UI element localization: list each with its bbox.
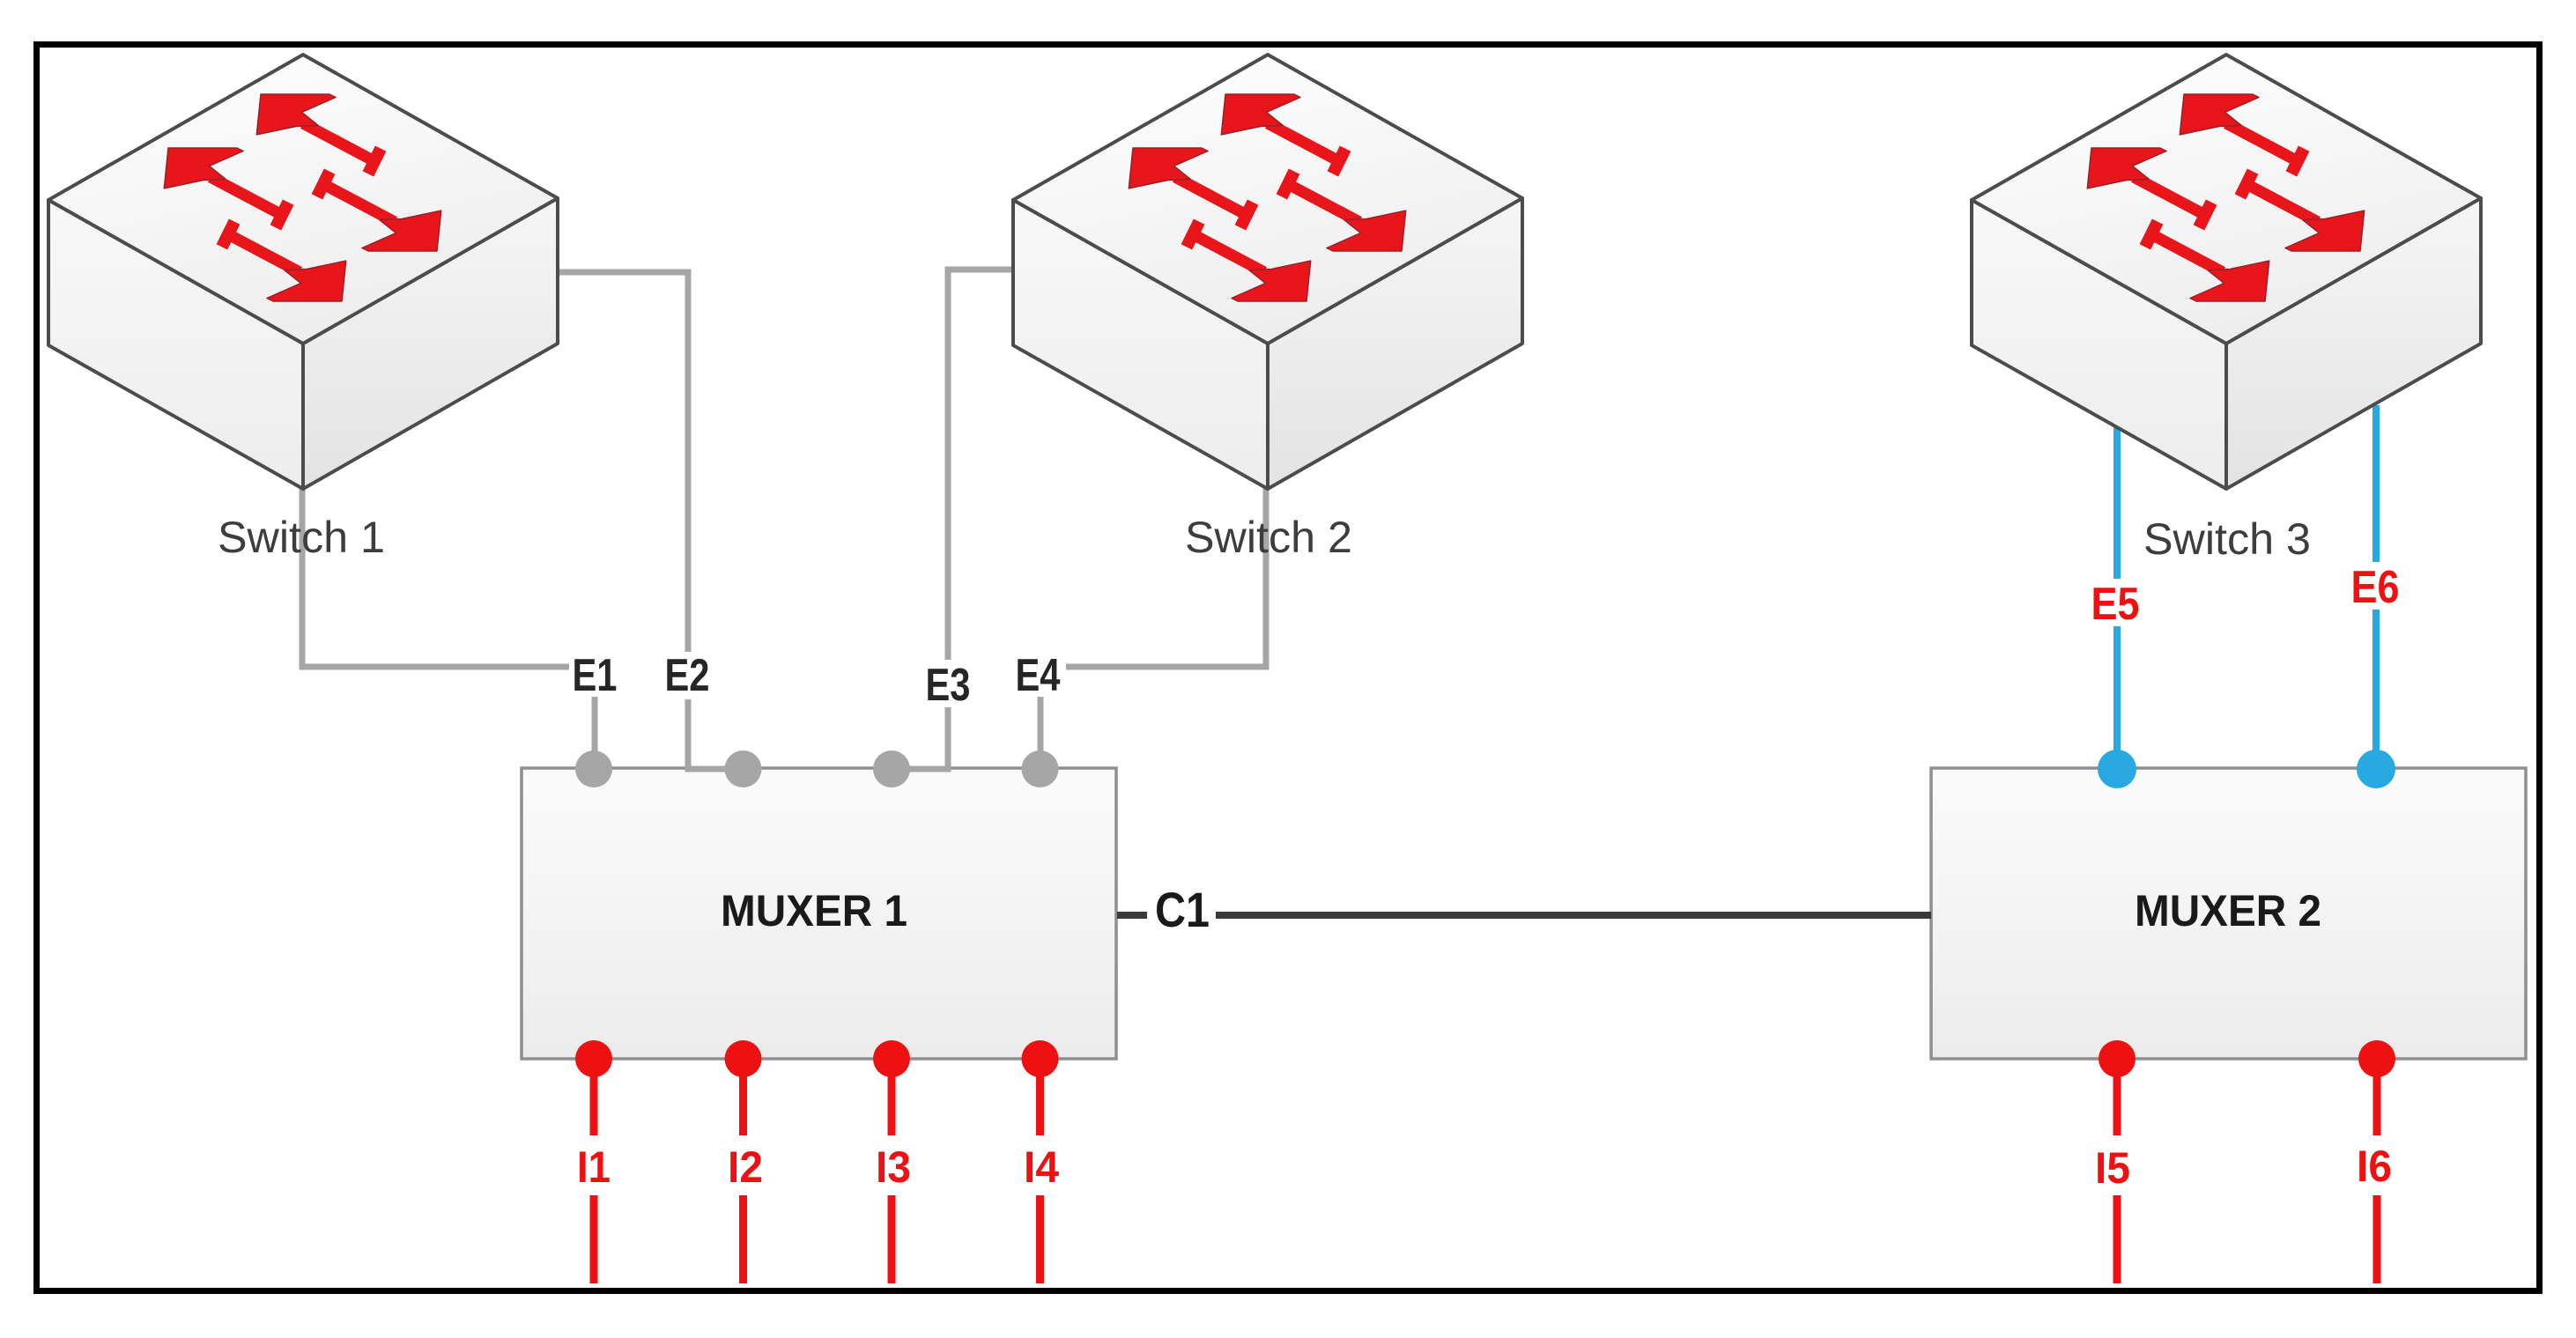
- svg-text:Switch 1: Switch 1: [218, 513, 385, 562]
- svg-text:E1: E1: [573, 650, 618, 701]
- svg-text:MUXER 2: MUXER 2: [2135, 886, 2321, 935]
- svg-text:I3: I3: [876, 1142, 911, 1192]
- svg-text:I2: I2: [728, 1142, 763, 1192]
- svg-text:I5: I5: [2095, 1143, 2130, 1193]
- svg-text:I1: I1: [577, 1142, 611, 1192]
- svg-text:C1: C1: [1155, 882, 1210, 937]
- svg-text:MUXER 1: MUXER 1: [721, 886, 907, 935]
- svg-text:E6: E6: [2351, 562, 2400, 613]
- svg-text:E2: E2: [665, 650, 710, 701]
- svg-text:Switch 2: Switch 2: [1185, 513, 1352, 562]
- svg-text:E4: E4: [1016, 650, 1061, 701]
- svg-text:Switch 3: Switch 3: [2143, 514, 2311, 564]
- svg-text:E5: E5: [2091, 579, 2140, 630]
- svg-text:I6: I6: [2357, 1142, 2392, 1191]
- svg-text:E3: E3: [926, 660, 971, 711]
- svg-text:I4: I4: [1024, 1142, 1059, 1192]
